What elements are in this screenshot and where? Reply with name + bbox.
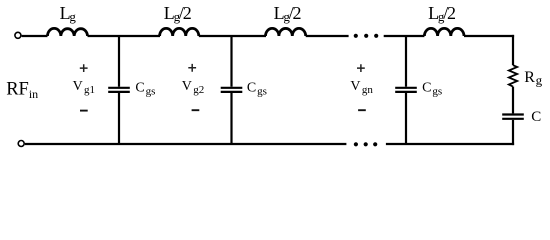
wire branch n lower: [405, 93, 407, 144]
wire bottom rail segment 2: [386, 143, 514, 145]
ellipsis dots top rail: [354, 34, 358, 38]
capacitor Cgs 2: [221, 87, 243, 89]
wire right branch upper: [512, 35, 514, 65]
inductor Lg: [48, 28, 88, 36]
svg-text:Cgs: Cgs: [135, 81, 155, 98]
minus sign node 1: [80, 110, 88, 112]
wire branch 1 upper: [118, 36, 120, 87]
resistor Rg: [509, 65, 517, 86]
wire top rail segment 5: [384, 35, 425, 37]
wire top rail segment 1: [22, 35, 48, 37]
wire top rail segment 6: [464, 35, 514, 37]
wire right branch lower: [512, 120, 514, 145]
svg-text:C: C: [531, 109, 541, 125]
inductor Lg/2 fourth: [424, 28, 464, 36]
svg-text:Vgn: Vgn: [350, 79, 373, 96]
svg-text:Rg: Rg: [524, 69, 542, 88]
plus sign node n: [357, 64, 365, 72]
wire branch n upper: [405, 36, 407, 87]
svg-text:Lg/2: Lg/2: [164, 3, 191, 24]
svg-text:Lg/2: Lg/2: [428, 3, 455, 24]
wire branch 2 upper: [230, 36, 232, 87]
inductor Lg/2 third: [266, 28, 306, 36]
svg-text:Cgs: Cgs: [422, 81, 442, 98]
wire bottom rail segment 1: [25, 143, 347, 145]
svg-text:Vg2: Vg2: [182, 79, 204, 96]
wire branch 1 lower: [118, 93, 120, 144]
svg-text:RFin: RFin: [6, 79, 38, 101]
capacitor Cgs 1: [108, 87, 130, 89]
svg-text:Vg1: Vg1: [73, 79, 95, 96]
plus sign node 1: [80, 64, 88, 72]
inductor Lg/2 second: [160, 28, 199, 36]
wire top rail segment 4: [306, 35, 349, 37]
svg-text:Lg/2: Lg/2: [274, 3, 301, 24]
wire top rail segment 2: [88, 35, 161, 37]
svg-text:Cgs: Cgs: [247, 81, 267, 98]
plus sign node 2: [188, 64, 196, 72]
minus sign node n: [358, 109, 366, 111]
ellipsis dots bottom rail: [354, 142, 358, 146]
wire branch 2 lower: [230, 93, 232, 144]
capacitor C: [502, 113, 524, 115]
wire right branch middle: [512, 87, 514, 114]
svg-text:Lg: Lg: [60, 3, 77, 24]
input terminal bottom: [18, 141, 24, 147]
input terminal top: [15, 32, 21, 38]
wire top rail segment 3: [199, 35, 266, 37]
capacitor Cgs n: [395, 87, 417, 89]
minus sign node 2: [192, 109, 200, 111]
